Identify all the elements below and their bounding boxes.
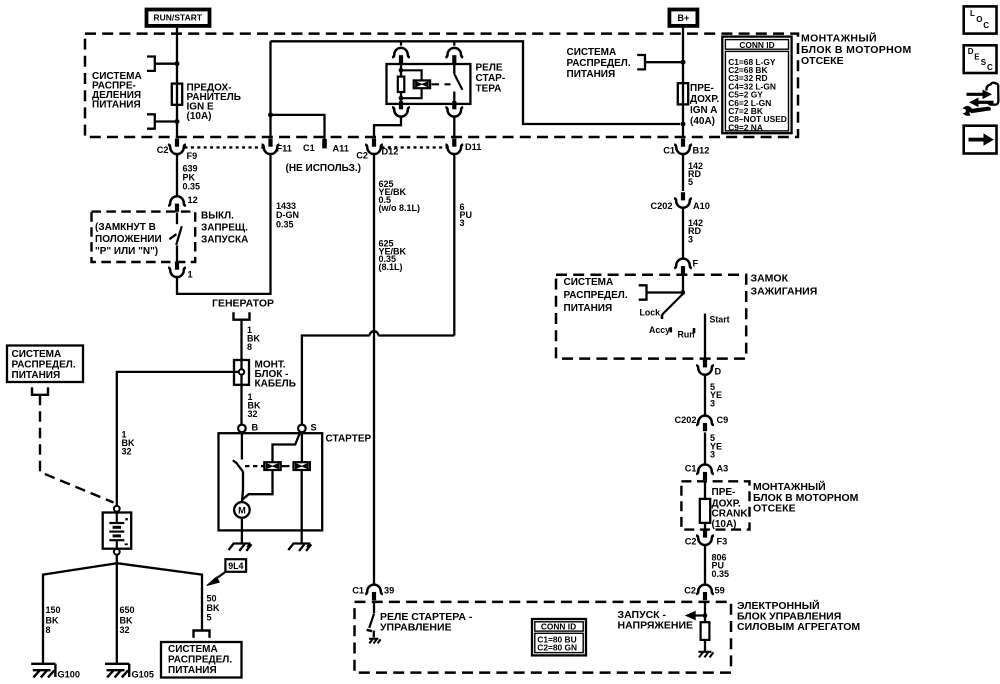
starter relay U1 box: [387, 64, 471, 104]
svg-text:РАСПРЕДЕЛ.: РАСПРЕДЕЛ.: [168, 655, 232, 666]
connector C202/A10: [674, 192, 692, 208]
svg-text:(10A): (10A): [187, 111, 212, 122]
svg-text:ОТСЕКЕ: ОТСЕКЕ: [753, 503, 796, 515]
solenoid winding 1: [264, 462, 280, 470]
starter motor M: [234, 502, 250, 518]
svg-text:Accy: Accy: [649, 325, 670, 335]
label СИСТЕМА РАСПРЕ-ДЕЛЕНИЯ ПИТАНИЯ: [92, 71, 142, 111]
wire 806 PU 0.35: [704, 545, 706, 585]
battery negative three-way split: [116, 555, 118, 563]
svg-text:ПИТАНИЯ: ПИТАНИЯ: [12, 370, 61, 381]
svg-text:СТАР-: СТАР-: [476, 73, 506, 84]
svg-text:32: 32: [120, 625, 130, 635]
svg-text:32: 32: [248, 409, 258, 419]
connector F11: [262, 139, 280, 155]
svg-text:L: L: [970, 9, 975, 18]
svg-text:B+: B+: [678, 13, 690, 23]
S wire through winding 2 to ground: [301, 432, 303, 462]
svg-text:C202: C202: [675, 415, 697, 425]
starter motor box: [219, 433, 323, 530]
svg-text:ПИТАНИЯ: ПИТАНИЯ: [168, 665, 217, 676]
svg-text:C2: C2: [685, 537, 697, 547]
LOC icon: [964, 6, 997, 33]
wire relay switch out to D11: [453, 117, 455, 137]
wire down from 1, over to F11 riser: [177, 154, 271, 294]
svg-text:32: 32: [122, 447, 132, 457]
wire B+ down through fuse IGN A to C1/B12: [682, 28, 684, 138]
svg-text:S: S: [981, 58, 987, 67]
relay pin bottom-right connector: [445, 101, 463, 117]
label МОНТАЖНЫЙ БЛОК В МОТОРНОМ ОТСЕКЕ (top right): [801, 32, 912, 68]
svg-text:БЛОК В МОТОРНОМ: БЛОК В МОТОРНОМ: [801, 44, 912, 56]
svg-text:0.35: 0.35: [183, 182, 201, 192]
svg-text:F3: F3: [717, 537, 728, 547]
svg-text:C1: C1: [685, 463, 697, 473]
connector C2/59: [696, 585, 714, 601]
svg-text:C2: C2: [684, 586, 696, 596]
wire 639 PK 0.35: [176, 154, 178, 196]
Start contact wire: [704, 314, 706, 359]
wire 5 YE 3: [704, 375, 706, 416]
dotted connector link D12-D11: [382, 146, 448, 148]
connector 12: [168, 196, 186, 212]
underhood fuse block (МОНТАЖНЫЙ БЛОК В МОТОРНОМ ОТСЕКЕ) dashed box: [85, 34, 798, 137]
svg-text:РЕЛЕ: РЕЛЕ: [476, 63, 503, 74]
dotted connector link C2-F11: [185, 146, 264, 148]
bracket under box: [31, 387, 49, 394]
diagnostic tool icon: [962, 83, 999, 116]
connector C202/C9: [696, 416, 714, 432]
svg-text:КАБЕЛЬ: КАБЕЛЬ: [255, 379, 296, 390]
wire S run with hop over 625 wire: [378, 334, 454, 336]
svg-text:650: 650: [120, 605, 135, 615]
wire labels: [46, 605, 61, 635]
fuse CRANK (10A): [700, 499, 710, 523]
Accy contact: [669, 327, 672, 332]
wire 142 RD 3: [682, 208, 684, 260]
svg-text:59: 59: [715, 586, 725, 596]
svg-text:Start: Start: [710, 315, 730, 325]
svg-text:F9: F9: [187, 151, 198, 161]
svg-text:СИСТЕМА: СИСТЕМА: [564, 277, 614, 288]
wire: [155, 120, 177, 122]
power distribution box (bottom): [161, 642, 242, 678]
connector D11: [445, 139, 463, 155]
A11 terminal stub: [322, 139, 327, 148]
svg-text:3: 3: [688, 234, 693, 244]
powertrain control module dashed box (ЭЛЕКТРОННЫЙ БЛОК): [355, 602, 732, 673]
ground G105: [105, 664, 129, 678]
connector D: [696, 359, 714, 375]
svg-text:D: D: [715, 367, 722, 377]
svg-text:ДОХР.: ДОХР.: [690, 94, 719, 105]
mechanical link dashes: [432, 83, 451, 85]
wire to motor: [242, 471, 243, 502]
svg-text:Run: Run: [678, 330, 695, 340]
ground starter motor: [229, 544, 252, 551]
ECM internal switch to ground: [373, 602, 375, 614]
bracket power distribution: [637, 54, 645, 71]
svg-text:ПИТАНИЯ: ПИТАНИЯ: [564, 303, 613, 314]
svg-text:8: 8: [46, 625, 51, 635]
bracket above lower power dist box: [192, 631, 210, 638]
svg-text:9L4: 9L4: [228, 561, 243, 571]
svg-text:(8.1L): (8.1L): [379, 262, 403, 272]
svg-text:ПРЕ-: ПРЕ-: [690, 83, 714, 94]
svg-text:УПРАВЛЕНИЕ: УПРАВЛЕНИЕ: [380, 622, 452, 634]
crank voltage sense: [618, 609, 694, 632]
ground (ECM driver): [369, 639, 381, 644]
svg-text:1: 1: [188, 270, 193, 280]
node: junction dot upper (IGN E feed): [175, 61, 180, 66]
svg-text:5: 5: [207, 612, 212, 622]
ignition switch dashed box (ЗАМОК ЗАЖИГАНИЯ): [556, 275, 746, 359]
splice circle: [239, 369, 244, 374]
svg-text:5: 5: [688, 177, 693, 187]
svg-text:39: 39: [384, 586, 394, 596]
relay pin bottom-left connector: [392, 101, 410, 117]
svg-text:ЗАПРЕЩ.: ЗАПРЕЩ.: [201, 223, 248, 234]
connector C1/B12: [674, 139, 692, 155]
svg-text:C: C: [983, 21, 989, 30]
connector C2/F3: [696, 529, 714, 545]
node: junction dot lower: [175, 119, 180, 124]
svg-text:ПОЛОЖЕНИИ: ПОЛОЖЕНИИ: [95, 234, 162, 245]
generator bracket: [232, 312, 250, 319]
svg-text:O: O: [976, 15, 982, 24]
svg-text:СИЛОВЫМ АГРЕГАТОМ: СИЛОВЫМ АГРЕГАТОМ: [737, 621, 860, 633]
mechanical link dashes: [245, 465, 264, 467]
svg-text:A3: A3: [717, 463, 729, 473]
wire 625 YE/BK down from D12 to ECM C1-39: [373, 154, 375, 584]
connector F: [674, 259, 692, 275]
svg-text:(ЗАМКНУТ В: (ЗАМКНУТ В: [95, 222, 156, 233]
svg-text:B12: B12: [693, 146, 710, 156]
svg-text:D: D: [968, 47, 974, 56]
svg-text:(10A): (10A): [712, 519, 737, 530]
svg-text:ЗАЖИГАНИЯ: ЗАЖИГАНИЯ: [751, 286, 818, 298]
park/neutral position switch dashed box: [92, 212, 196, 262]
svg-text:РАСПРЕДЕЛ.: РАСПРЕДЕЛ.: [12, 360, 76, 371]
dashed battery feed wire: [40, 395, 114, 503]
next-page arrow icon: [964, 126, 997, 154]
connector C1/A3: [696, 465, 714, 481]
Run contact: [693, 328, 696, 333]
battery: [114, 506, 120, 512]
svg-text:СИСТЕМА: СИСТЕМА: [567, 47, 617, 58]
svg-text:C1: C1: [663, 146, 675, 156]
svg-text:BK: BK: [46, 615, 59, 625]
svg-text:3: 3: [710, 450, 715, 460]
relay pin top-left connector: [400, 41, 402, 45]
P/N switch: [176, 212, 178, 224]
svg-text:C1: C1: [303, 143, 315, 153]
svg-text:ЗАМОК: ЗАМОК: [751, 273, 789, 285]
wire RUN/START down to C2 connector: [176, 28, 178, 138]
connector C2/D12: [365, 139, 383, 155]
connector 1: [168, 262, 186, 278]
svg-text:E: E: [974, 53, 980, 62]
svg-text:C2: C2: [157, 145, 169, 155]
relay coil actuator bowtie: [414, 80, 430, 88]
svg-text:12: 12: [188, 195, 198, 205]
svg-text:ЗАПУСКА: ЗАПУСКА: [201, 235, 248, 246]
underhood junction block cable box (МОНТ. БЛОК - КАБЕЛЬ): [234, 360, 249, 385]
ECM input resistor: [701, 622, 710, 640]
svg-text:G100: G100: [58, 670, 80, 680]
svg-text:BK: BK: [120, 615, 133, 625]
bracket to power distribution (lower): [147, 113, 155, 130]
connector C2/F9: [168, 139, 186, 155]
wire into CRANK fuse: [704, 481, 706, 499]
svg-text:CONN ID: CONN ID: [739, 40, 774, 50]
svg-text:ПИТАНИЯ: ПИТАНИЯ: [92, 100, 141, 111]
svg-text:СТАРТЕР: СТАРТЕР: [326, 434, 372, 445]
CONN ID table: [722, 37, 791, 134]
terminal S: [298, 425, 306, 433]
wire from 59 to resistor: [373, 600, 375, 602]
connector C1/39: [365, 585, 383, 601]
svg-text:50: 50: [207, 593, 217, 603]
ground starter solenoid: [288, 544, 311, 551]
wire to A11 pin: [271, 115, 325, 140]
svg-text:C9=2 NA: C9=2 NA: [728, 122, 763, 132]
svg-text:СИСТЕМА: СИСТЕМА: [168, 644, 218, 655]
svg-text:C2: C2: [356, 151, 368, 161]
svg-text:A10: A10: [693, 201, 710, 211]
wire bracket to wire: [155, 63, 177, 65]
svg-text:C202: C202: [651, 201, 673, 211]
svg-text:ПРЕ-: ПРЕ-: [712, 487, 736, 498]
svg-text:8: 8: [247, 342, 252, 352]
fuse IGN E (10A): [172, 84, 182, 105]
ignition switch arm to Lock: [662, 294, 683, 315]
CRANK fuse dashed box: [681, 481, 749, 529]
wire 142 RD 5: [682, 154, 684, 191]
svg-text:РАСПРЕДЕЛ.: РАСПРЕДЕЛ.: [564, 290, 628, 301]
battery positive feed wire to splice: [117, 372, 239, 506]
svg-text:C9: C9: [717, 415, 729, 425]
svg-text:G105: G105: [132, 670, 154, 680]
relay coil: [400, 64, 402, 77]
svg-text:(40A): (40A): [690, 116, 715, 127]
svg-text:(w/o 8.1L): (w/o 8.1L): [379, 203, 421, 213]
svg-text:ВЫКЛ.: ВЫКЛ.: [201, 211, 234, 222]
wire from F to switch: [682, 276, 684, 294]
power distribution box (left, solid): [7, 346, 83, 383]
svg-text:CONN ID: CONN ID: [541, 622, 576, 632]
svg-text:3: 3: [710, 398, 715, 408]
sense arrow: [694, 614, 705, 616]
wire 1 BK 8: [240, 320, 242, 360]
svg-text:D11: D11: [465, 142, 481, 152]
solenoid winding 2: [294, 462, 310, 470]
CONN ID table (ECM): [532, 619, 586, 655]
svg-text:RUN/START: RUN/START: [153, 13, 202, 23]
B+ tag: [669, 10, 697, 26]
solenoid feed from S: [273, 432, 301, 463]
svg-text:F: F: [693, 259, 699, 269]
RUN/START tag: [147, 10, 210, 26]
coil loop to bowtie: [401, 70, 422, 81]
svg-text:IGN A: IGN A: [690, 105, 717, 116]
svg-text:C2=80 GN: C2=80 GN: [537, 643, 577, 653]
svg-text:ГЕНЕРАТОР: ГЕНЕРАТОР: [212, 298, 274, 310]
relay pin top-right connector: [453, 41, 455, 45]
bracket to power distribution (upper): [147, 55, 155, 72]
top feed rail from F11 to fuse IGN A output: [271, 41, 681, 124]
bracket in ignition box: [639, 284, 647, 301]
svg-text:3: 3: [460, 218, 465, 228]
relay switch: [453, 64, 455, 74]
svg-text:НАПРЯЖЕНИЕ: НАПРЯЖЕНИЕ: [618, 620, 694, 632]
svg-text:F11: F11: [277, 144, 292, 154]
svg-text:МОНТАЖНЫЙ: МОНТАЖНЫЙ: [801, 32, 877, 45]
fuse IGN A (40A): [678, 83, 688, 104]
wire 5 YE 3 (lower): [704, 432, 706, 464]
svg-text:CRANK: CRANK: [712, 509, 749, 520]
svg-text:ОТСЕКЕ: ОТСЕКЕ: [801, 55, 844, 67]
F11 riser above: [269, 41, 271, 137]
svg-text:B: B: [252, 423, 259, 433]
wire relay coil out to D12: [374, 117, 401, 137]
svg-text:BK: BK: [207, 603, 220, 613]
wire hop: [370, 331, 379, 335]
solenoid return to motor: [242, 470, 273, 500]
svg-text:ТЕРА: ТЕРА: [476, 84, 502, 95]
svg-text:M: M: [238, 505, 246, 515]
svg-text:0.35: 0.35: [712, 569, 730, 579]
node: junction to A11: [268, 112, 273, 117]
svg-text:C1: C1: [352, 586, 364, 596]
9L4 callout: [225, 559, 246, 572]
svg-text:C: C: [987, 63, 993, 72]
wire 6 PU 3 from D11 down to starter S: [453, 154, 455, 336]
svg-text:0.35: 0.35: [276, 219, 294, 229]
terminal B: [238, 425, 246, 433]
svg-text:"P" ИЛИ "N"): "P" ИЛИ "N"): [95, 246, 158, 257]
svg-text:Lock: Lock: [640, 308, 661, 318]
ground (ECM internal): [698, 652, 713, 658]
svg-text:ПИТАНИЯ: ПИТАНИЯ: [567, 69, 616, 80]
svg-text:A11: A11: [333, 144, 349, 154]
wire label 1433 D-GN 0.35: [276, 201, 299, 229]
starter contact switch: [241, 432, 243, 459]
DESC icon: [964, 45, 997, 73]
svg-text:150: 150: [46, 605, 61, 615]
svg-text:СИСТЕМА: СИСТЕМА: [12, 349, 62, 360]
svg-text:(НЕ ИСПОЛЬЗ.): (НЕ ИСПОЛЬЗ.): [286, 163, 361, 174]
svg-text:РАСПРЕДЕЛ.: РАСПРЕДЕЛ.: [567, 58, 631, 69]
ground G100: [31, 664, 55, 678]
svg-text:S: S: [311, 423, 317, 433]
wire 1 BK 32 to starter B: [240, 385, 242, 425]
